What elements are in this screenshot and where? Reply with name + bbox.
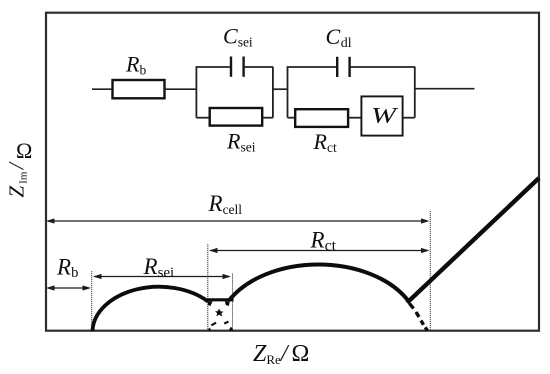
marker: small dash data point left [211,322,217,327]
svg-text:ZRe/ Ω: ZRe/ Ω [253,341,309,367]
svg-text:Rct: Rct [313,129,337,155]
curve: dashed semicircle completion [410,304,428,331]
resistor R_b [113,80,165,98]
wire DL bottom branch left [288,117,296,119]
wire R_b to SEI block [165,88,197,90]
plot frame [46,13,539,331]
wire SEI block to DL block [273,88,288,90]
resistor R_sei [210,108,263,126]
node marker: dotted line at R_cell right end [429,211,431,330]
dimension arrow R_ct [209,248,430,253]
node: right junction dash [225,302,230,307]
svg-text:W: W [371,103,398,128]
svg-text:Ω: Ω [16,138,32,163]
curve: Warburg diffusion tail [407,178,539,303]
wire SEI top branch right [244,66,274,68]
node right rail of SEI parallel block [272,67,274,118]
node left rail of SEI parallel block [195,67,197,118]
node marker: dotted line at R_sei right end [232,274,234,331]
dimension arrow R_b [46,285,91,290]
wire SEI bottom branch left [196,117,209,119]
svg-text:Rsei: Rsei [143,254,175,281]
svg-text:Rcell: Rcell [208,191,243,217]
wire SEI top branch left [196,66,232,68]
wire input lead [92,88,113,90]
svg-text:ZIm/: ZIm/ [4,161,30,197]
Warburg element W [361,96,402,135]
svg-text:Cdl: Cdl [326,24,352,51]
dimension arrow R_sei [93,274,231,279]
wire R_ct to W [348,117,361,119]
svg-text:Rb: Rb [56,254,78,281]
marker: small dash data point right [224,321,229,325]
node right rail of DL parallel block [414,67,416,118]
node: left junction dash [208,302,213,307]
wire DL top branch right [350,66,416,68]
wire output lead [415,88,475,90]
dimension arrow R_cell [46,218,430,223]
svg-text:Rct: Rct [310,228,337,255]
capacitor C_dl [337,57,349,77]
wire DL top branch left [287,66,338,68]
capacitor C_sei [231,57,244,77]
svg-text:Csei: Csei [223,24,253,50]
node: bottom right tick [229,327,234,331]
node left rail of DL parallel block [287,67,289,118]
svg-text:Rsei: Rsei [226,129,256,155]
svg-text:Rb: Rb [125,52,146,78]
node marker: dotted line at R_ct left end [207,244,209,330]
curve: charge-transfer semicircle [229,264,408,300]
resistor R_ct [295,109,348,127]
node: bottom left tick [208,328,212,331]
node marker: dotted line at R_b right end [91,271,93,330]
wire: transition plateau [207,298,234,301]
marker: star data point [215,309,224,317]
curve: SEI semicircle [93,287,209,331]
wire SEI bottom branch right [262,117,273,119]
wire W to right rail [403,117,415,119]
